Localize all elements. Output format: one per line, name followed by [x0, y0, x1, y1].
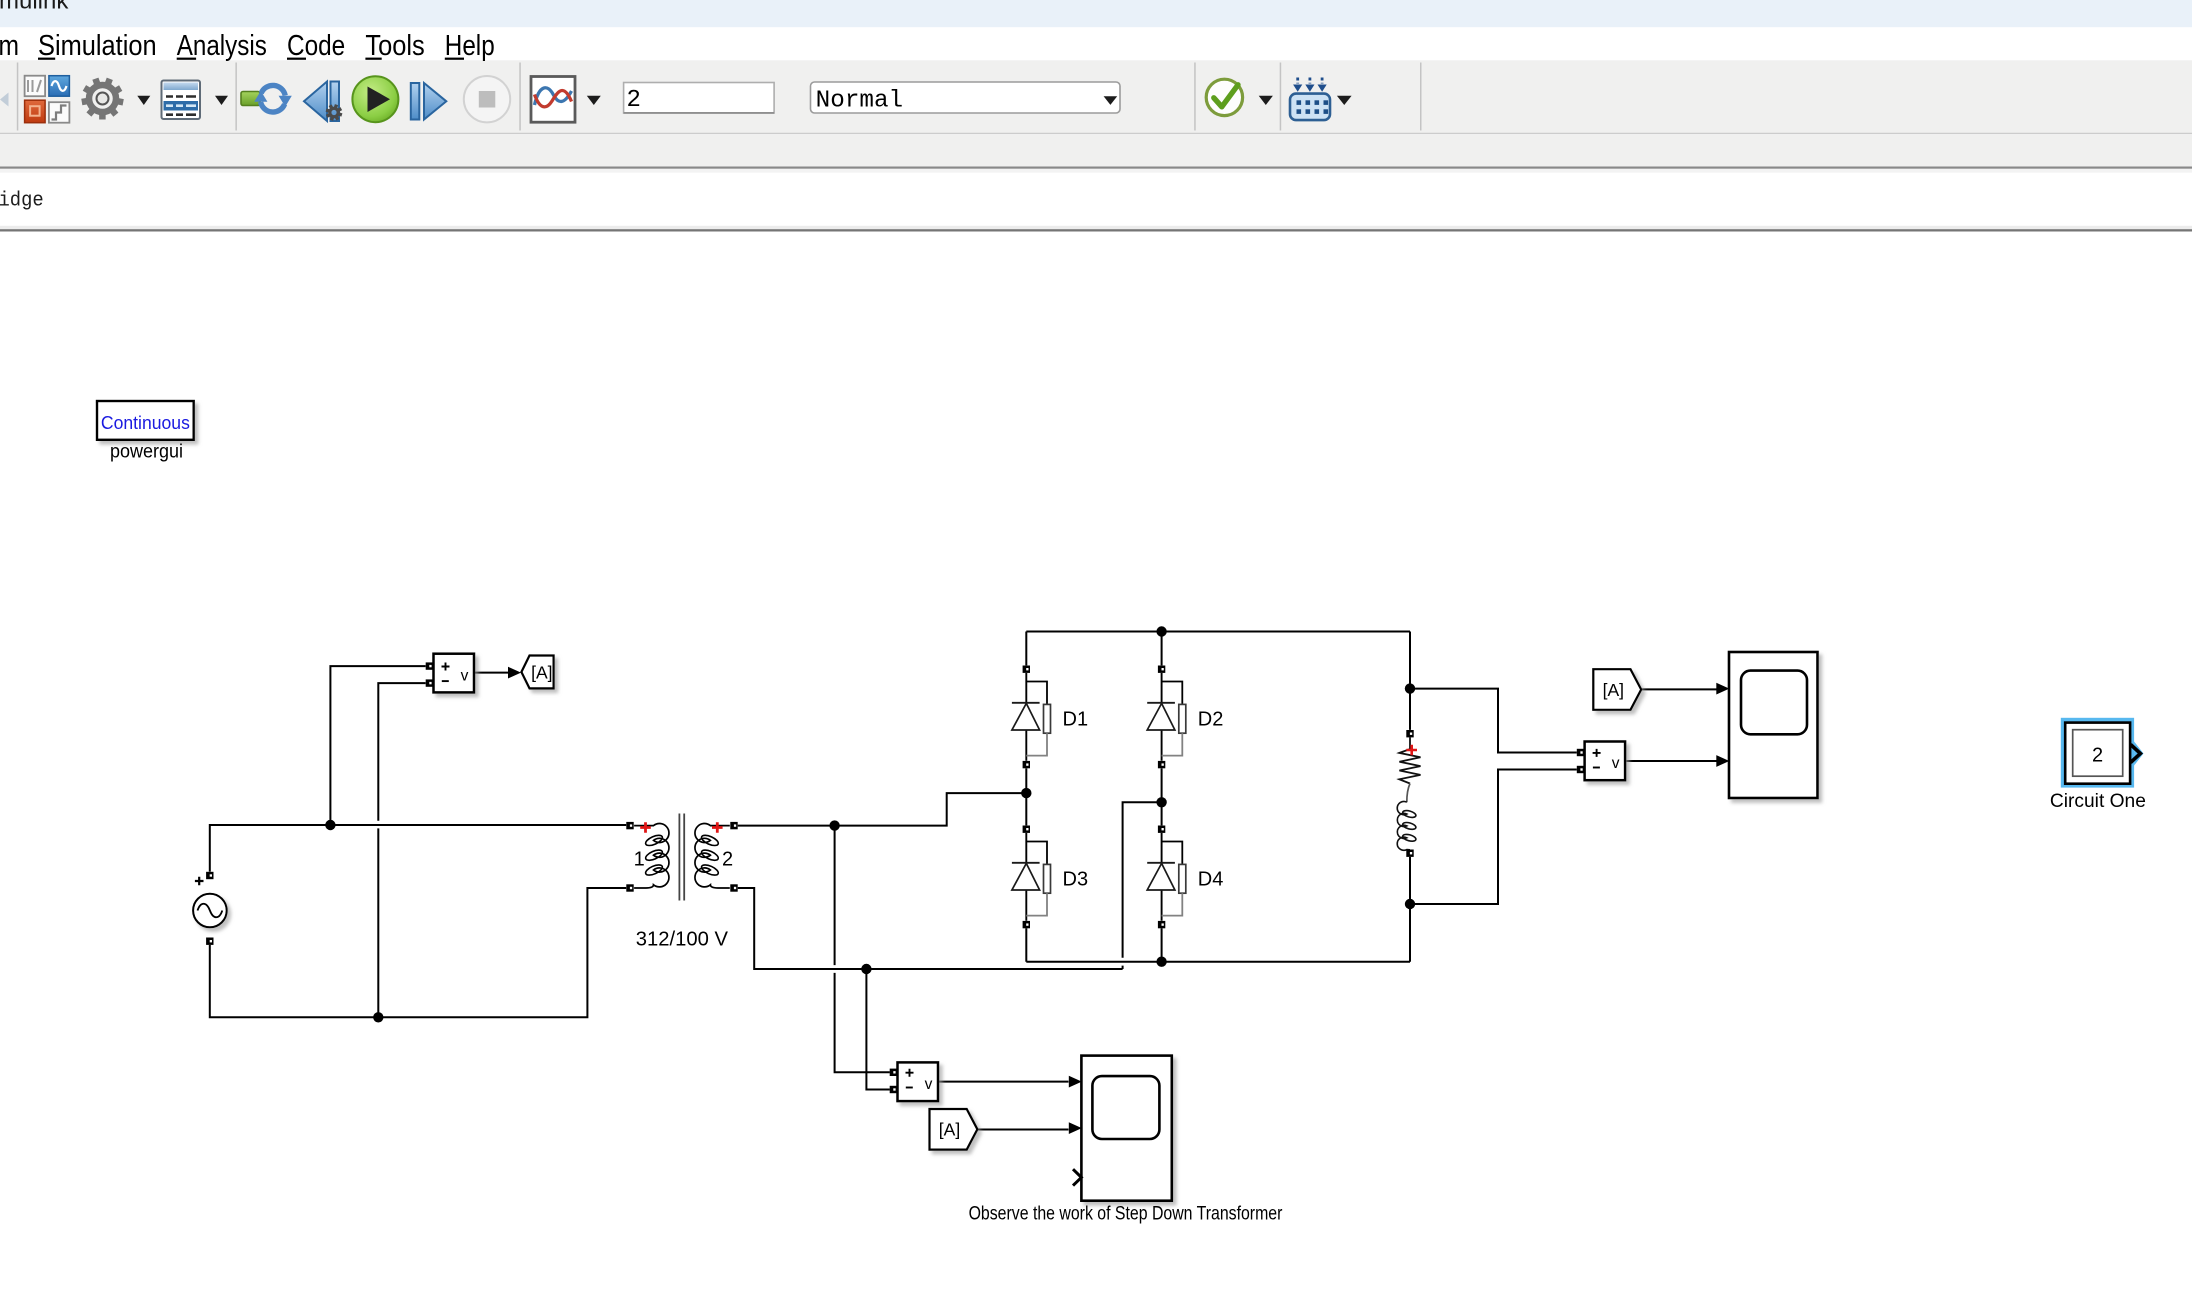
svg-text:Observe the work of Step Down: Observe the work of Step Down Transforme…: [969, 1202, 1283, 1224]
svg-text:[A]: [A]: [939, 1120, 960, 1140]
svg-text:Circuit One: Circuit One: [2050, 790, 2146, 812]
svg-text:2: 2: [2092, 745, 2103, 767]
svg-text:v: v: [461, 667, 469, 684]
svg-text:Normal: Normal: [816, 88, 903, 115]
svg-text:312/100 V: 312/100 V: [636, 928, 729, 950]
svg-text:powergui: powergui: [110, 442, 183, 463]
svg-text:D1: D1: [1063, 709, 1089, 731]
svg-text:D2: D2: [1198, 709, 1224, 731]
svg-text:Help: Help: [445, 30, 495, 62]
svg-text:[A]: [A]: [531, 662, 552, 682]
svg-text:v: v: [925, 1076, 933, 1093]
svg-text:Tools: Tools: [365, 30, 424, 62]
svg-text:mulink: mulink: [0, 0, 69, 15]
svg-text:Continuous: Continuous: [101, 412, 190, 433]
svg-text:idge: idge: [0, 189, 44, 212]
svg-text:Simulation: Simulation: [38, 30, 157, 62]
svg-text:1: 1: [634, 848, 645, 870]
svg-text:[A]: [A]: [1603, 680, 1624, 700]
svg-text:2: 2: [627, 87, 641, 114]
svg-text:Code: Code: [287, 30, 345, 62]
svg-text:D4: D4: [1198, 869, 1224, 891]
svg-text:Analysis: Analysis: [177, 30, 267, 62]
svg-text:m: m: [0, 30, 19, 62]
svg-text:2: 2: [722, 848, 733, 870]
svg-text:v: v: [1612, 755, 1620, 772]
svg-text:D3: D3: [1063, 869, 1089, 891]
